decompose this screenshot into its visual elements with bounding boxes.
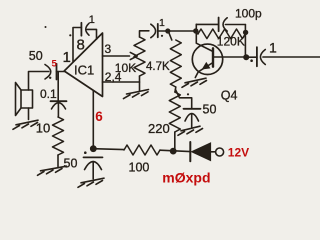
svg-text:5: 5	[52, 58, 58, 69]
svg-text:mØxpd: mØxpd	[162, 170, 210, 186]
svg-text:IC1: IC1	[74, 63, 94, 78]
svg-text:3: 3	[105, 42, 112, 56]
svg-text:2,4: 2,4	[105, 70, 122, 84]
svg-text:1: 1	[63, 49, 71, 66]
svg-text:100: 100	[129, 161, 150, 175]
svg-text:50: 50	[64, 157, 78, 171]
svg-text:6: 6	[95, 109, 103, 124]
svg-text:10: 10	[36, 120, 50, 135]
svg-text:1: 1	[159, 17, 165, 29]
svg-text:120K: 120K	[217, 34, 245, 48]
svg-text:50: 50	[29, 49, 43, 63]
svg-text:4.7K: 4.7K	[146, 61, 170, 73]
svg-text:0.1: 0.1	[40, 87, 57, 101]
svg-text:12V: 12V	[228, 146, 249, 160]
svg-text:50: 50	[203, 103, 217, 117]
svg-text:100p: 100p	[235, 7, 262, 21]
svg-text:1: 1	[269, 40, 277, 56]
svg-text:8: 8	[77, 36, 85, 53]
svg-text:220: 220	[148, 121, 170, 136]
svg-text:1: 1	[89, 14, 95, 26]
svg-text:Q4: Q4	[221, 88, 238, 102]
